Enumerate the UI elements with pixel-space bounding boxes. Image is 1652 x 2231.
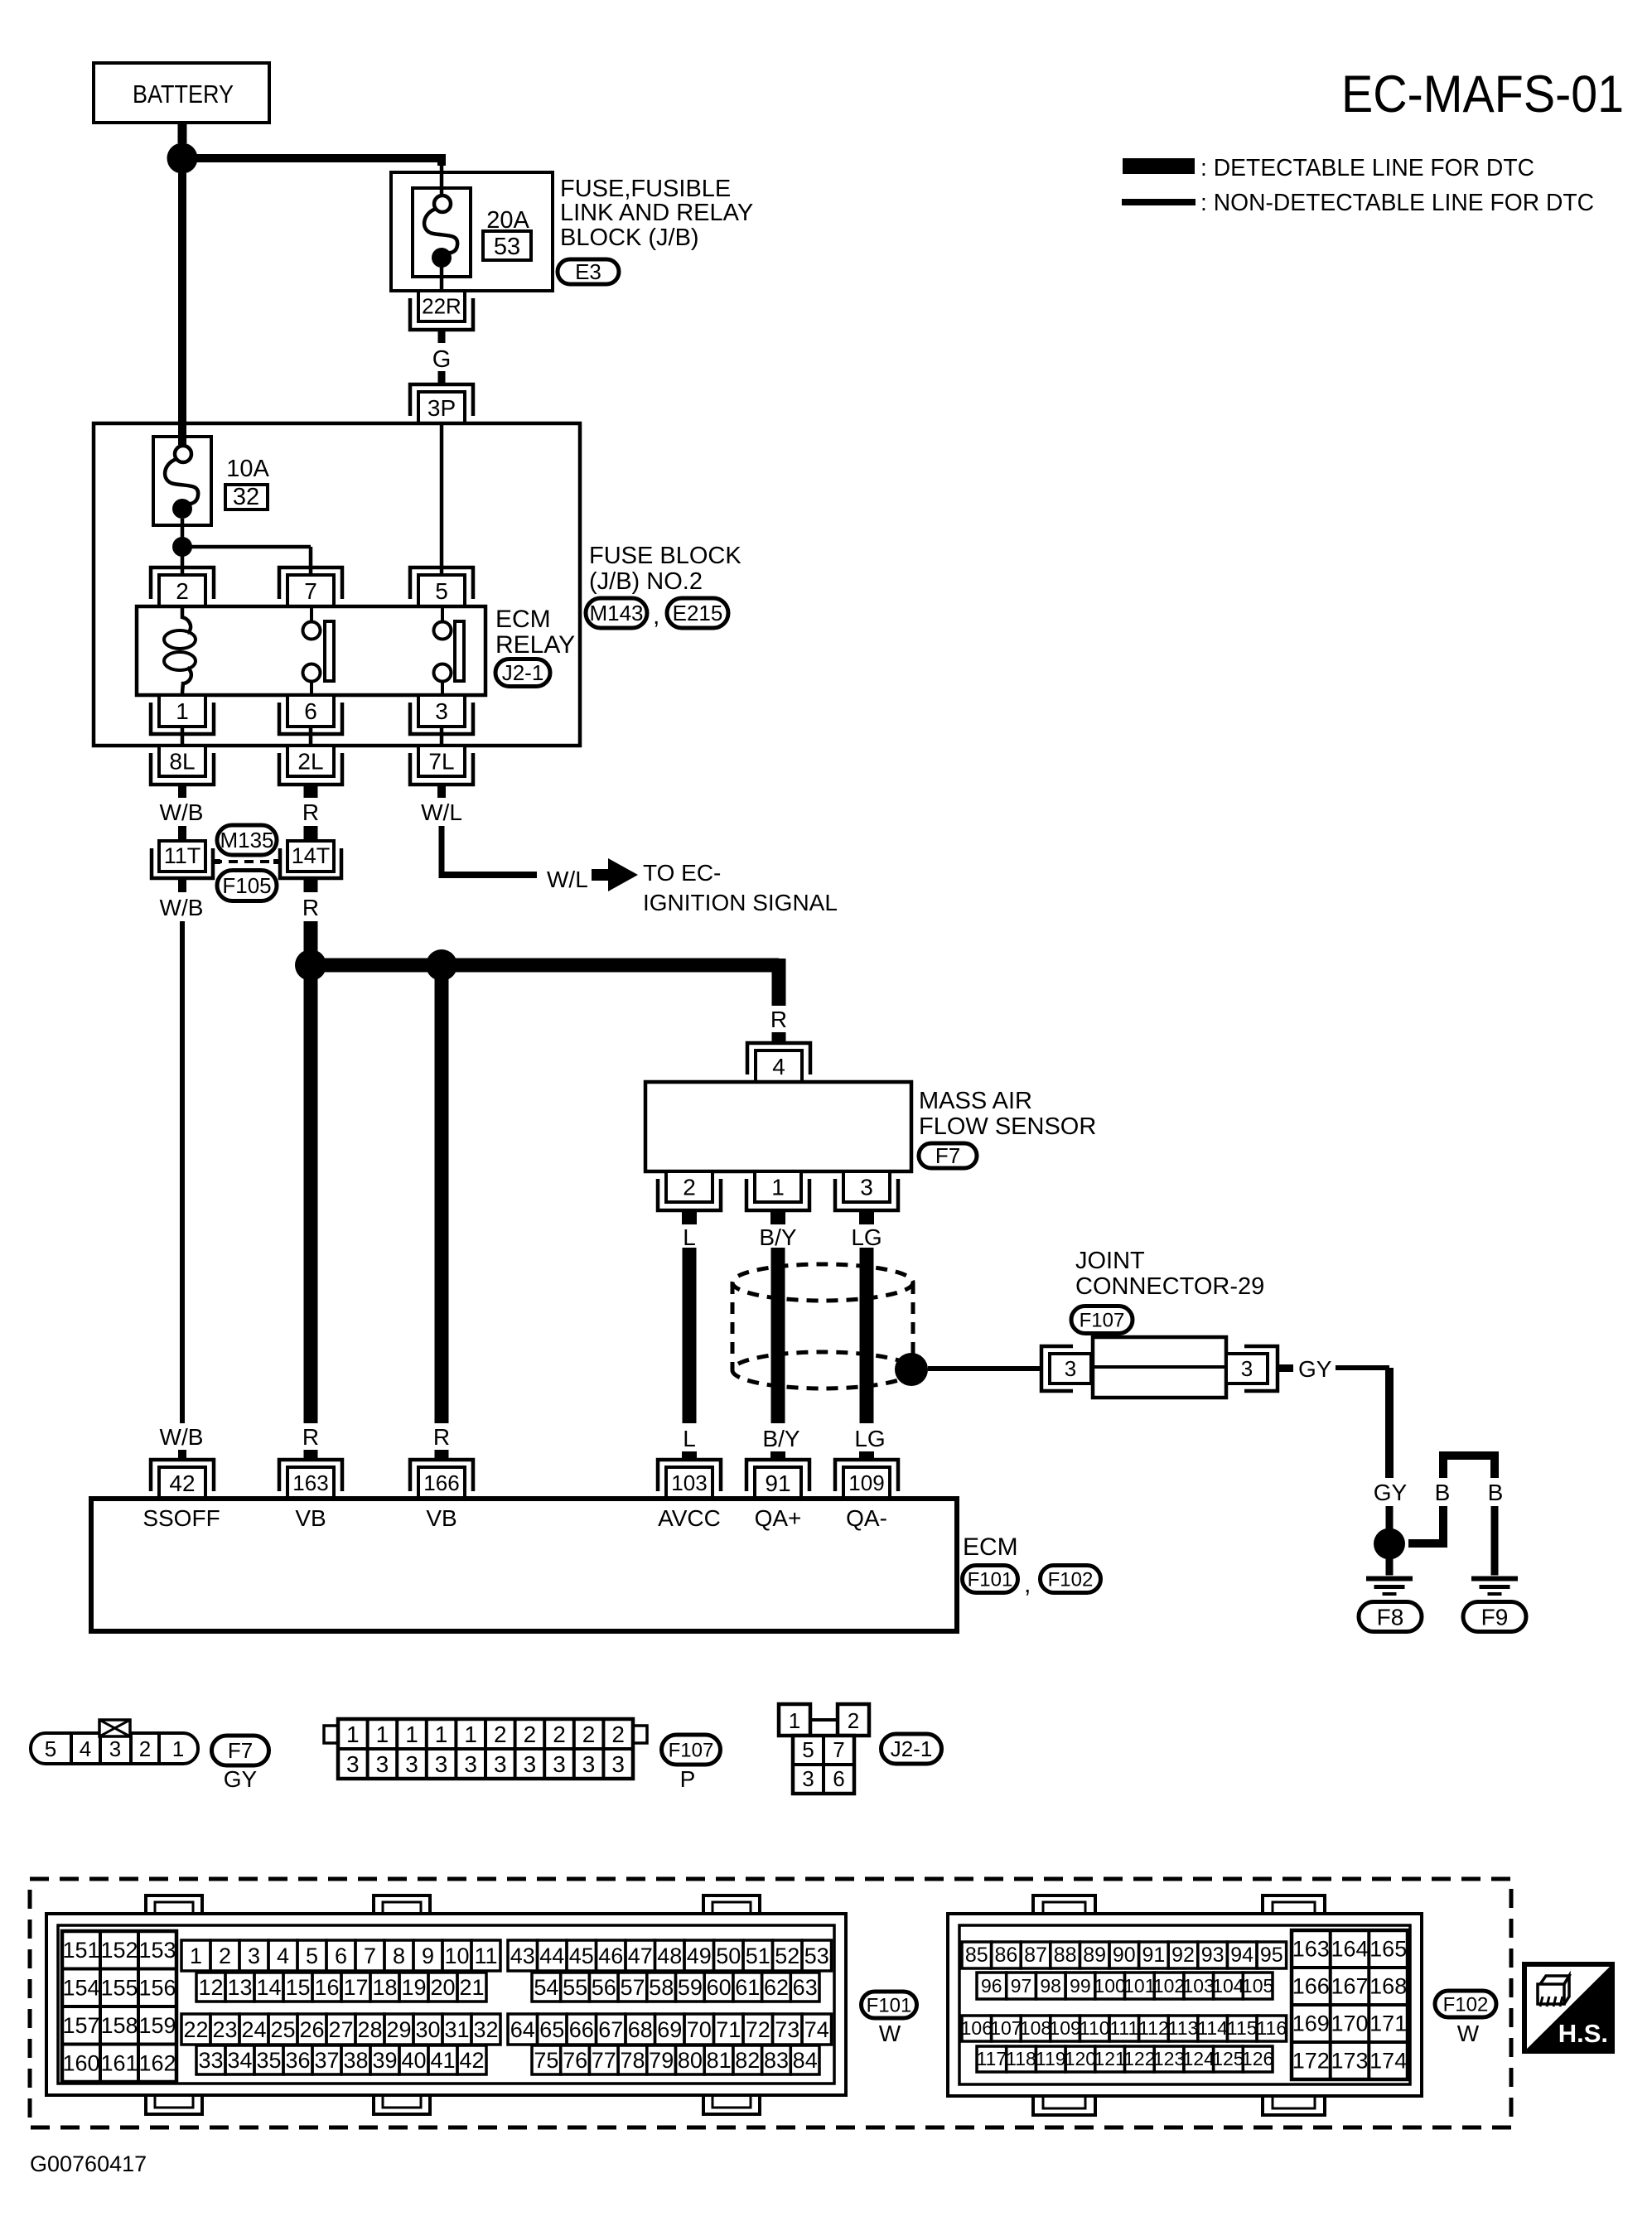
svg-text:3: 3 [802, 1766, 814, 1791]
svg-text:5: 5 [435, 578, 448, 604]
svg-text:55: 55 [563, 1975, 587, 2000]
svg-text:172: 172 [1292, 2049, 1330, 2074]
svg-text:QA-: QA- [846, 1505, 887, 1531]
svg-text:P: P [680, 1766, 696, 1792]
svg-text:3: 3 [860, 1174, 873, 1200]
svg-text:60: 60 [707, 1975, 732, 2000]
svg-text:EC-MAFS-01: EC-MAFS-01 [1341, 65, 1624, 123]
svg-text:1: 1 [789, 1708, 800, 1733]
svg-text:153: 153 [138, 1938, 176, 1963]
svg-text:8L: 8L [169, 748, 195, 774]
svg-text:J2-1: J2-1 [502, 660, 544, 685]
svg-text:FUSE BLOCK: FUSE BLOCK [589, 543, 741, 569]
svg-text:R: R [302, 799, 319, 825]
svg-text:2: 2 [524, 1722, 537, 1747]
svg-text:(J/B) NO.2: (J/B) NO.2 [589, 568, 703, 595]
svg-text:2L: 2L [297, 748, 323, 774]
svg-text:28: 28 [357, 2017, 382, 2042]
svg-text:81: 81 [707, 2048, 732, 2073]
svg-text:71: 71 [716, 2017, 741, 2042]
svg-text:7: 7 [364, 1944, 376, 1968]
svg-text:157: 157 [62, 2013, 99, 2038]
svg-text:57: 57 [620, 1975, 645, 2000]
svg-text:112: 112 [1138, 2017, 1169, 2039]
svg-text:93: 93 [1201, 1944, 1225, 1967]
svg-text:R: R [302, 1424, 319, 1450]
svg-text:M135: M135 [220, 828, 273, 852]
svg-text:LINK AND RELAY: LINK AND RELAY [560, 200, 753, 226]
svg-text:110: 110 [1080, 2017, 1110, 2039]
svg-text:F107: F107 [1080, 1309, 1125, 1331]
svg-text:159: 159 [138, 2013, 176, 2038]
svg-text:77: 77 [592, 2048, 616, 2073]
svg-text:W/L: W/L [421, 799, 462, 825]
svg-text:30: 30 [415, 2017, 440, 2042]
svg-text:RELAY: RELAY [495, 631, 575, 659]
svg-text:174: 174 [1369, 2049, 1407, 2074]
svg-text:49: 49 [687, 1944, 712, 1968]
svg-text:BATTERY: BATTERY [133, 80, 234, 109]
svg-text:102: 102 [1153, 1975, 1185, 1997]
svg-text:1: 1 [190, 1944, 202, 1968]
svg-text:101: 101 [1123, 1975, 1155, 1997]
svg-text:F7: F7 [228, 1738, 253, 1763]
svg-text:2: 2 [553, 1722, 566, 1747]
svg-text:152: 152 [100, 1938, 138, 1963]
svg-text:R: R [433, 1424, 450, 1450]
svg-text:6: 6 [304, 698, 317, 724]
svg-text:CONNECTOR-29: CONNECTOR-29 [1075, 1273, 1264, 1300]
svg-text:168: 168 [1369, 1974, 1407, 1999]
svg-text:89: 89 [1083, 1944, 1106, 1967]
svg-text:105: 105 [1242, 1975, 1273, 1997]
svg-text:GY: GY [1298, 1356, 1332, 1382]
svg-text:3: 3 [1241, 1356, 1253, 1381]
svg-text:114: 114 [1197, 2017, 1228, 2039]
svg-text:21: 21 [459, 1975, 484, 2000]
svg-text:3: 3 [524, 1751, 537, 1777]
svg-text:70: 70 [687, 2017, 712, 2042]
svg-text:158: 158 [100, 2013, 138, 2038]
svg-text:170: 170 [1331, 2011, 1368, 2036]
svg-text:19: 19 [401, 1975, 426, 2000]
svg-text:155: 155 [100, 1976, 138, 2001]
svg-text:115: 115 [1227, 2017, 1258, 2039]
svg-text:156: 156 [138, 1976, 176, 2001]
svg-text:GY: GY [1374, 1480, 1408, 1505]
svg-text:AVCC: AVCC [658, 1505, 721, 1531]
svg-text:163: 163 [292, 1470, 328, 1495]
svg-text:W: W [879, 2021, 901, 2046]
svg-text:53: 53 [804, 1944, 829, 1968]
svg-text:165: 165 [1369, 1937, 1407, 1962]
svg-text:7: 7 [833, 1737, 844, 1762]
svg-text:160: 160 [62, 2051, 99, 2076]
svg-text:25: 25 [270, 2017, 295, 2042]
svg-text:162: 162 [138, 2051, 176, 2076]
svg-text:91: 91 [765, 1470, 790, 1496]
svg-text:34: 34 [227, 2048, 252, 2073]
svg-text:1: 1 [464, 1722, 477, 1747]
svg-text:,: , [1024, 1571, 1031, 1598]
svg-text:3: 3 [376, 1751, 389, 1777]
svg-text:64: 64 [510, 2017, 535, 2042]
svg-text:68: 68 [628, 2017, 653, 2042]
svg-text:167: 167 [1331, 1974, 1368, 1999]
svg-text:35: 35 [256, 2048, 281, 2073]
svg-text:95: 95 [1260, 1944, 1283, 1967]
svg-text:LG: LG [854, 1426, 885, 1451]
svg-text:L: L [683, 1224, 696, 1250]
svg-text:12: 12 [198, 1975, 223, 2000]
svg-text:22R: 22R [422, 294, 461, 319]
svg-text:14T: 14T [292, 843, 331, 868]
svg-text:3: 3 [248, 1944, 260, 1968]
svg-text:B: B [1435, 1480, 1451, 1505]
svg-text:84: 84 [793, 2048, 818, 2073]
svg-text:3: 3 [611, 1751, 625, 1777]
svg-text:118: 118 [1006, 2048, 1036, 2069]
svg-text:3: 3 [494, 1751, 507, 1777]
svg-text:2: 2 [611, 1722, 625, 1747]
svg-text:3: 3 [1065, 1356, 1076, 1381]
svg-text:16: 16 [314, 1975, 339, 2000]
svg-text:2: 2 [582, 1722, 596, 1747]
svg-text:: NON-DETECTABLE LINE FOR DTC: : NON-DETECTABLE LINE FOR DTC [1200, 190, 1594, 216]
svg-text:163: 163 [1292, 1937, 1330, 1962]
svg-text:3: 3 [464, 1751, 477, 1777]
svg-text:42: 42 [459, 2048, 484, 2073]
svg-text:4: 4 [277, 1944, 289, 1968]
svg-text:18: 18 [372, 1975, 397, 2000]
svg-text:F102: F102 [1048, 1568, 1094, 1591]
svg-text:J2-1: J2-1 [891, 1736, 933, 1761]
svg-text:117: 117 [976, 2048, 1007, 2069]
svg-text:65: 65 [539, 2017, 564, 2042]
svg-text:92: 92 [1171, 1944, 1195, 1967]
svg-text:MASS AIR: MASS AIR [919, 1088, 1032, 1114]
svg-text:F105: F105 [222, 873, 271, 898]
svg-text:3: 3 [405, 1751, 418, 1777]
svg-text:7L: 7L [428, 748, 454, 774]
svg-text:TO EC-: TO EC- [643, 860, 721, 886]
svg-text:45: 45 [569, 1944, 594, 1968]
svg-text:66: 66 [569, 2017, 594, 2042]
svg-text:3: 3 [435, 698, 448, 724]
svg-text:E215: E215 [673, 601, 723, 625]
svg-text:JOINT: JOINT [1075, 1248, 1145, 1274]
svg-text:47: 47 [628, 1944, 653, 1968]
svg-text:104: 104 [1212, 1975, 1244, 1997]
svg-text:R: R [770, 1007, 787, 1032]
svg-text:41: 41 [430, 2048, 455, 2073]
svg-text:2: 2 [139, 1736, 151, 1761]
svg-text:FUSE,FUSIBLE: FUSE,FUSIBLE [560, 176, 731, 202]
svg-text:69: 69 [657, 2017, 682, 2042]
svg-text:VB: VB [295, 1505, 326, 1531]
svg-text:3: 3 [553, 1751, 566, 1777]
svg-text:1: 1 [376, 1722, 389, 1747]
svg-text:29: 29 [386, 2017, 411, 2042]
svg-text:8: 8 [393, 1944, 405, 1968]
svg-text:,: , [653, 602, 659, 630]
svg-text:H.S.: H.S. [1558, 2019, 1608, 2048]
svg-text:3: 3 [435, 1751, 448, 1777]
svg-text:F107: F107 [669, 1739, 714, 1761]
svg-text:91: 91 [1142, 1944, 1165, 1967]
svg-text:39: 39 [372, 2048, 397, 2073]
svg-text:3: 3 [582, 1751, 596, 1777]
svg-text:173: 173 [1331, 2049, 1368, 2074]
svg-text:B/Y: B/Y [759, 1224, 796, 1250]
svg-text:2: 2 [494, 1722, 507, 1747]
svg-text:33: 33 [198, 2048, 223, 2073]
svg-text:13: 13 [227, 1975, 252, 2000]
svg-text:151: 151 [62, 1938, 99, 1963]
svg-text:5: 5 [45, 1736, 56, 1761]
svg-text:F9: F9 [1481, 1604, 1509, 1630]
svg-text:R: R [302, 895, 319, 920]
svg-text:E3: E3 [575, 259, 601, 284]
svg-text:W: W [1457, 2021, 1480, 2046]
svg-text:ECM: ECM [495, 606, 551, 633]
svg-text:3P: 3P [427, 395, 456, 421]
svg-text:59: 59 [678, 1975, 703, 2000]
svg-text:122: 122 [1123, 2048, 1155, 2069]
svg-text:1: 1 [771, 1174, 785, 1200]
svg-text:10A: 10A [226, 456, 269, 482]
svg-text:43: 43 [510, 1944, 535, 1968]
svg-text:F7: F7 [935, 1143, 960, 1168]
svg-text:4: 4 [80, 1736, 91, 1761]
svg-text:48: 48 [657, 1944, 682, 1968]
svg-text:54: 54 [534, 1975, 558, 2000]
svg-text:32: 32 [233, 484, 259, 510]
svg-text:119: 119 [1036, 2048, 1066, 2069]
svg-text:10: 10 [444, 1944, 469, 1968]
svg-text:79: 79 [649, 2048, 674, 2073]
svg-text:31: 31 [444, 2017, 469, 2042]
svg-text:62: 62 [764, 1975, 789, 2000]
svg-text:W/B: W/B [160, 1424, 204, 1450]
svg-text:120: 120 [1065, 2048, 1096, 2069]
svg-text:F101: F101 [968, 1568, 1013, 1591]
svg-text:116: 116 [1256, 2017, 1287, 2039]
svg-text:G00760417: G00760417 [30, 2151, 147, 2176]
svg-text:100: 100 [1094, 1975, 1125, 1997]
svg-text:90: 90 [1113, 1944, 1136, 1967]
svg-text:108: 108 [1020, 2017, 1051, 2039]
svg-text:171: 171 [1369, 2011, 1407, 2036]
svg-text:103: 103 [671, 1470, 707, 1495]
svg-text:99: 99 [1070, 1975, 1091, 1997]
svg-text:83: 83 [764, 2048, 789, 2073]
svg-text:161: 161 [100, 2051, 138, 2076]
svg-text:1: 1 [346, 1722, 360, 1747]
svg-text:5: 5 [802, 1737, 814, 1762]
svg-text:36: 36 [285, 2048, 310, 2073]
svg-text:F101: F101 [867, 1994, 912, 2016]
svg-text:B/Y: B/Y [762, 1426, 799, 1451]
svg-text:51: 51 [746, 1944, 770, 1968]
svg-text:73: 73 [775, 2017, 799, 2042]
svg-text:125: 125 [1212, 2048, 1244, 2069]
svg-text:W/L: W/L [547, 867, 588, 892]
svg-text:38: 38 [343, 2048, 368, 2073]
svg-text:1: 1 [435, 1722, 448, 1747]
svg-text:46: 46 [598, 1944, 623, 1968]
svg-text:63: 63 [793, 1975, 818, 2000]
svg-text:24: 24 [241, 2017, 266, 2042]
svg-text:98: 98 [1040, 1975, 1061, 1997]
svg-text:1: 1 [172, 1736, 184, 1761]
svg-text:1: 1 [405, 1722, 418, 1747]
svg-text:27: 27 [328, 2017, 353, 2042]
svg-text:109: 109 [848, 1470, 884, 1495]
svg-text:IGNITION SIGNAL: IGNITION SIGNAL [643, 890, 838, 915]
svg-text:72: 72 [746, 2017, 770, 2042]
svg-text:LG: LG [851, 1224, 882, 1250]
svg-text:15: 15 [285, 1975, 310, 2000]
svg-text:2: 2 [176, 578, 189, 604]
svg-text:QA+: QA+ [755, 1505, 802, 1531]
svg-text:W/B: W/B [160, 895, 204, 920]
svg-text:78: 78 [620, 2048, 645, 2073]
svg-text:44: 44 [539, 1944, 564, 1968]
svg-text:123: 123 [1153, 2048, 1185, 2069]
svg-text:20: 20 [430, 1975, 455, 2000]
svg-text:40: 40 [401, 2048, 426, 2073]
svg-text:L: L [683, 1426, 696, 1451]
svg-text:7: 7 [304, 578, 317, 604]
svg-text:96: 96 [981, 1975, 1002, 1997]
svg-text:103: 103 [1183, 1975, 1215, 1997]
svg-text:80: 80 [678, 2048, 703, 2073]
svg-text:6: 6 [335, 1944, 347, 1968]
svg-text:VB: VB [426, 1505, 456, 1531]
svg-text:87: 87 [1024, 1944, 1047, 1967]
svg-text:5: 5 [306, 1944, 318, 1968]
svg-text:106: 106 [961, 2017, 993, 2039]
svg-text:37: 37 [314, 2048, 339, 2073]
svg-text:B: B [1488, 1480, 1504, 1505]
svg-text:9: 9 [422, 1944, 434, 1968]
svg-text:3: 3 [109, 1736, 121, 1761]
svg-text:FLOW SENSOR: FLOW SENSOR [919, 1113, 1096, 1140]
svg-text:169: 169 [1292, 2011, 1330, 2036]
svg-text:GY: GY [224, 1766, 258, 1792]
svg-text:107: 107 [990, 2017, 1022, 2039]
svg-text:11: 11 [474, 1944, 497, 1968]
svg-text:164: 164 [1331, 1937, 1368, 1962]
svg-text:4: 4 [772, 1054, 785, 1079]
svg-text:1: 1 [176, 698, 189, 724]
svg-text:G: G [432, 346, 452, 373]
svg-text:14: 14 [256, 1975, 281, 2000]
svg-text:74: 74 [804, 2017, 829, 2042]
svg-text:11T: 11T [164, 843, 201, 868]
svg-text:52: 52 [775, 1944, 799, 1968]
svg-text:111: 111 [1109, 2017, 1138, 2039]
svg-text:23: 23 [212, 2017, 237, 2042]
svg-text:2: 2 [683, 1174, 696, 1200]
svg-text:: DETECTABLE LINE FOR DTC: : DETECTABLE LINE FOR DTC [1200, 155, 1534, 181]
svg-text:113: 113 [1168, 2017, 1199, 2039]
svg-text:F8: F8 [1377, 1604, 1404, 1630]
svg-text:121: 121 [1094, 2048, 1125, 2069]
svg-text:61: 61 [735, 1975, 760, 2000]
svg-text:ECM: ECM [963, 1533, 1018, 1561]
svg-text:F102: F102 [1443, 1993, 1489, 2016]
svg-text:3: 3 [346, 1751, 360, 1777]
svg-text:53: 53 [494, 234, 520, 260]
svg-text:109: 109 [1049, 2017, 1080, 2039]
svg-text:M143: M143 [589, 601, 643, 625]
svg-text:50: 50 [716, 1944, 741, 1968]
svg-text:124: 124 [1183, 2048, 1215, 2069]
svg-text:86: 86 [994, 1944, 1017, 1967]
svg-text:85: 85 [965, 1944, 988, 1967]
svg-text:26: 26 [299, 2017, 324, 2042]
svg-text:32: 32 [473, 2017, 498, 2042]
svg-text:2: 2 [219, 1944, 231, 1968]
svg-text:88: 88 [1054, 1944, 1077, 1967]
svg-text:94: 94 [1230, 1944, 1253, 1967]
svg-text:BLOCK (J/B): BLOCK (J/B) [560, 225, 699, 251]
svg-text:76: 76 [563, 2048, 587, 2073]
svg-text:17: 17 [343, 1975, 368, 2000]
svg-text:75: 75 [534, 2048, 558, 2073]
svg-text:166: 166 [1292, 1974, 1330, 1999]
svg-text:67: 67 [598, 2017, 623, 2042]
svg-text:6: 6 [833, 1766, 844, 1791]
svg-text:154: 154 [62, 1976, 99, 2001]
svg-text:W/B: W/B [160, 799, 204, 825]
svg-text:166: 166 [423, 1470, 459, 1495]
svg-text:42: 42 [169, 1470, 195, 1496]
svg-text:97: 97 [1011, 1975, 1032, 1997]
svg-text:58: 58 [649, 1975, 674, 2000]
svg-text:82: 82 [735, 2048, 760, 2073]
svg-text:SSOFF: SSOFF [142, 1505, 220, 1531]
svg-text:56: 56 [592, 1975, 616, 2000]
svg-text:22: 22 [183, 2017, 208, 2042]
svg-text:126: 126 [1242, 2048, 1273, 2069]
svg-text:2: 2 [848, 1708, 859, 1733]
